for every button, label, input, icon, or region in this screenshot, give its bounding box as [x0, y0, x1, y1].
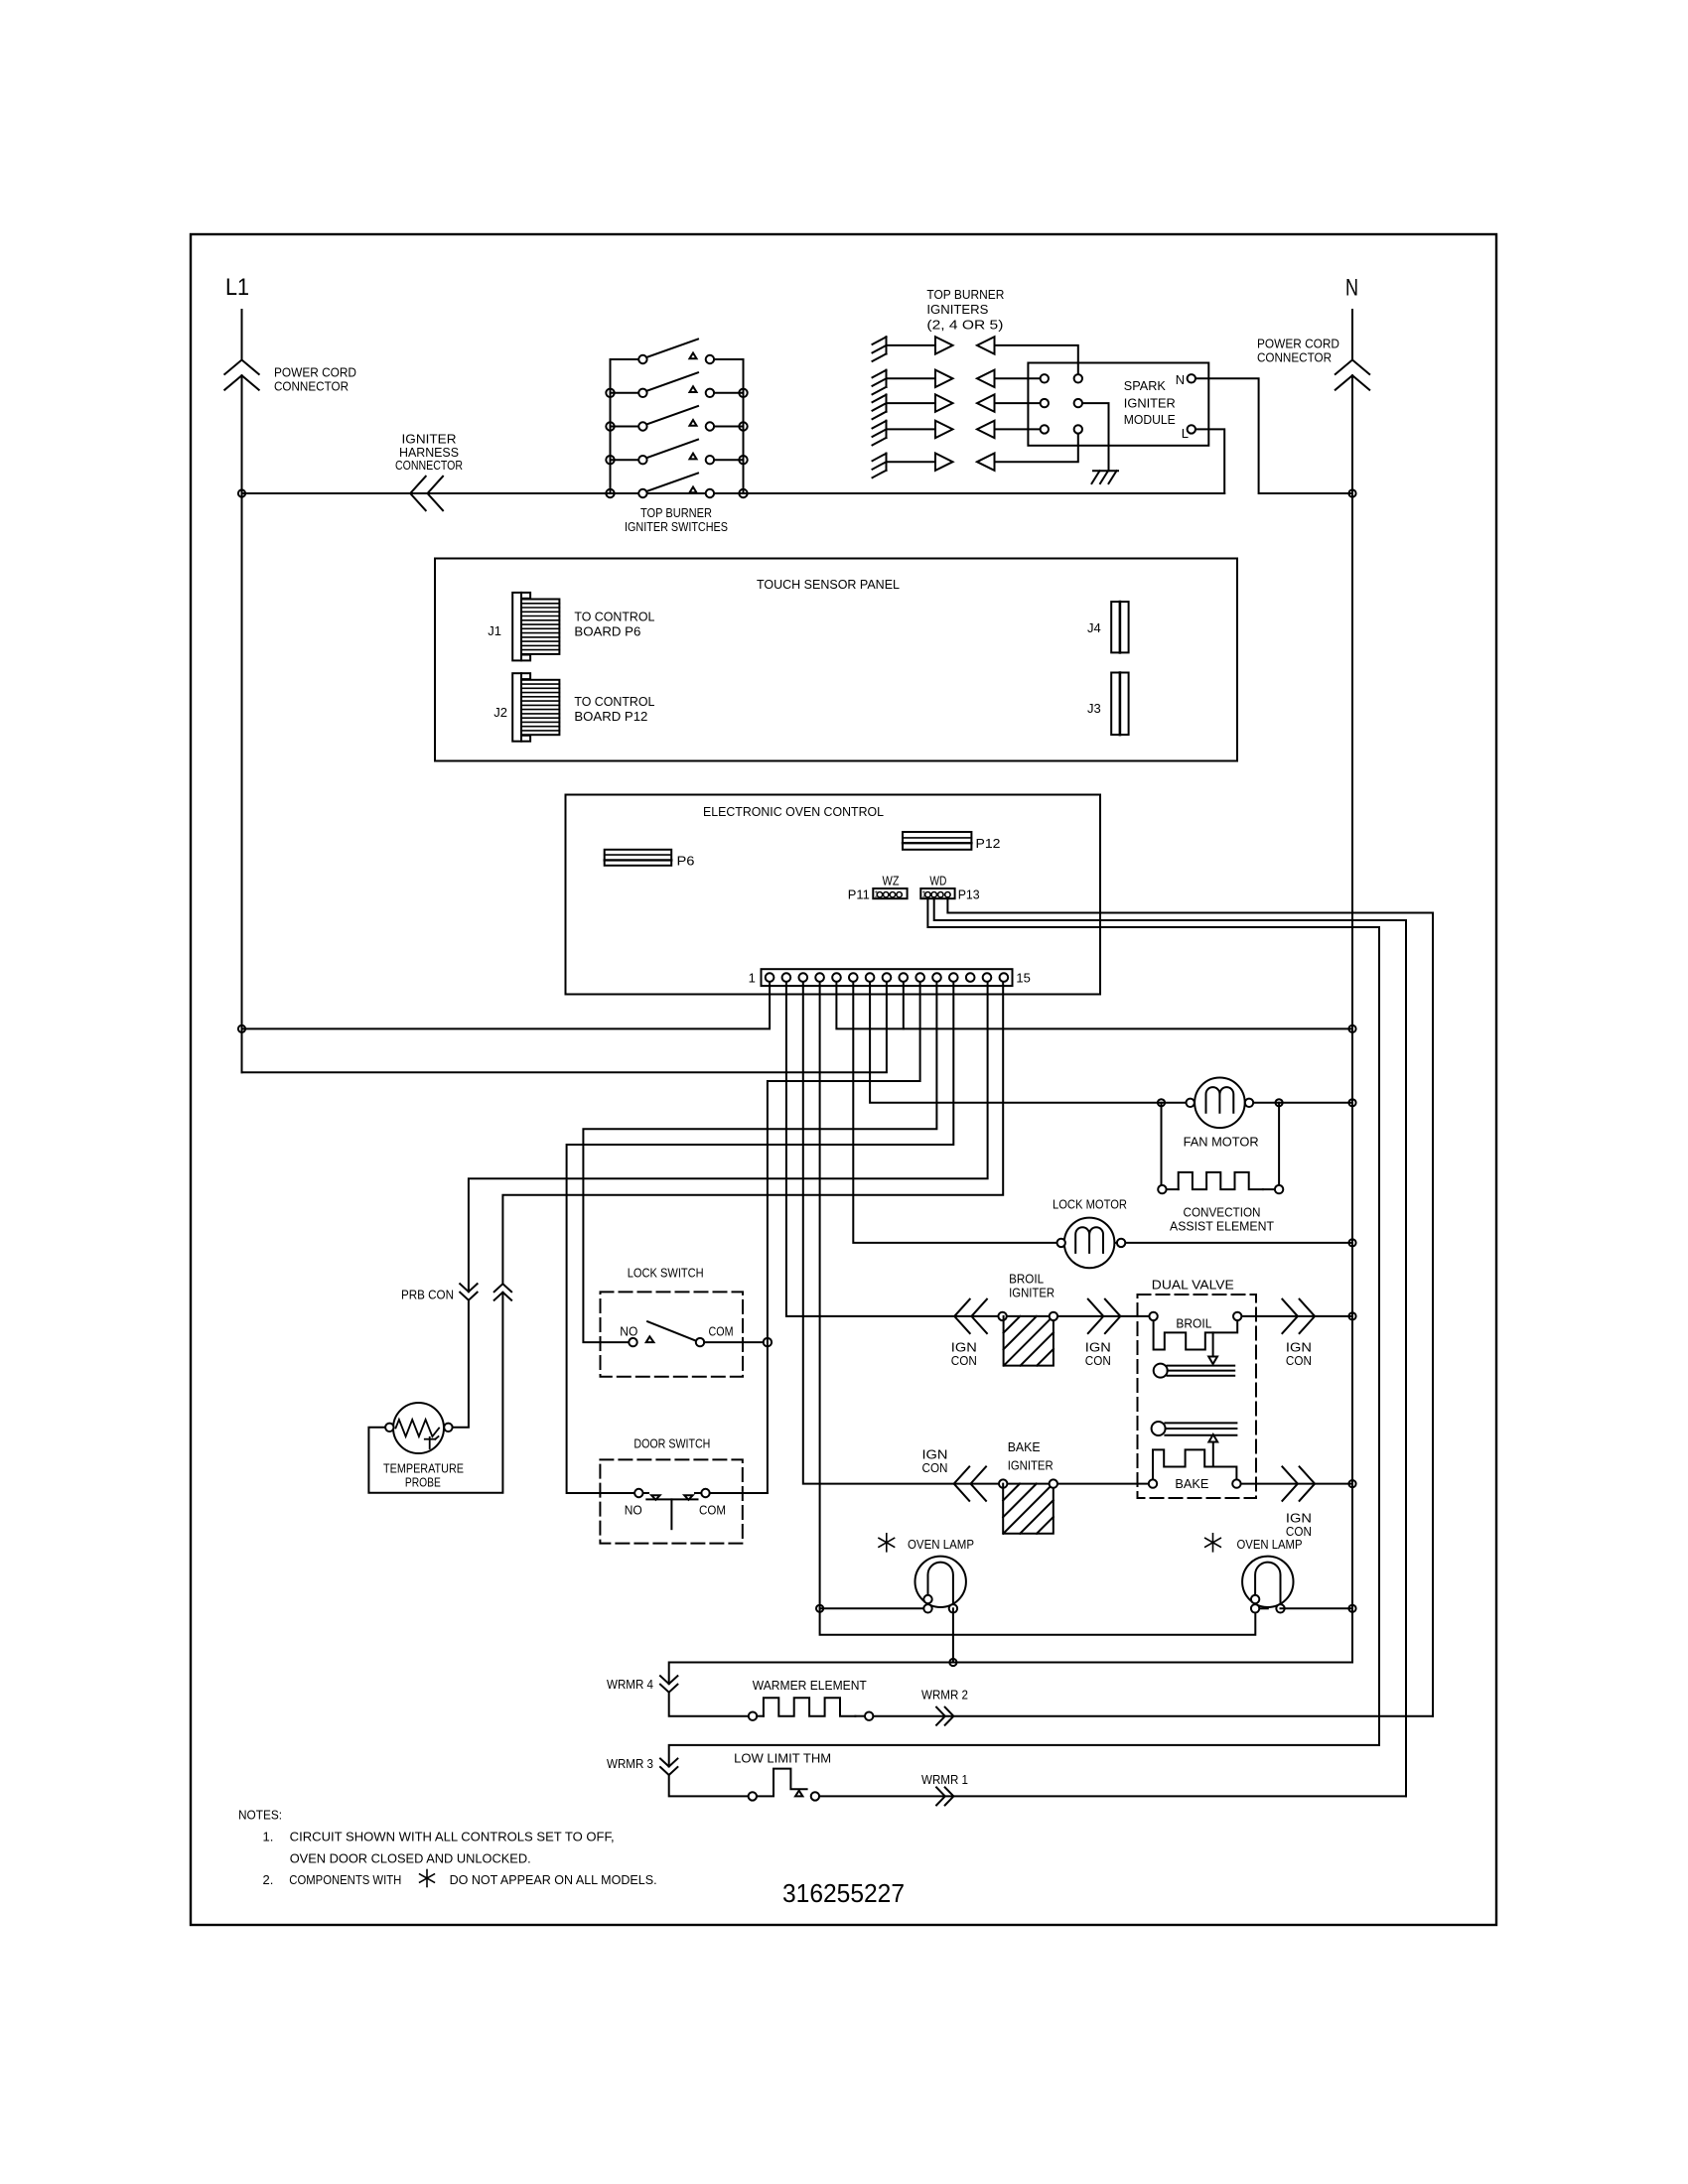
- svg-text:J1: J1: [488, 623, 501, 638]
- lock switch COM terminal: [696, 1338, 704, 1346]
- wire convection right drop: [1278, 1103, 1280, 1185]
- svg-text:CON: CON: [1286, 1353, 1312, 1368]
- broil valve terminal right: [1233, 1312, 1241, 1320]
- top burner igniter 5 electrode: [886, 454, 888, 471]
- node N fan row: [1348, 1099, 1355, 1106]
- wire pin14 to temperature probe (PRB CON): [469, 982, 988, 1292]
- svg-text:NOTES:: NOTES:: [238, 1808, 282, 1823]
- spark igniter module box: [1028, 363, 1208, 446]
- wire lamp2 left horizontal: [1255, 1607, 1268, 1609]
- module ground wire: [1082, 403, 1109, 471]
- svg-text:NO: NO: [620, 1323, 637, 1338]
- module terminal L: [1188, 425, 1196, 433]
- svg-text:SPARK: SPARK: [1124, 378, 1166, 393]
- wire pin3 to bake igniter row: [803, 982, 1149, 1484]
- pin 2: [782, 973, 791, 982]
- wire pin9 stub: [903, 982, 905, 1028]
- svg-text:PROBE: PROBE: [405, 1475, 441, 1490]
- wire WRMR4 to warmer element: [669, 1693, 749, 1716]
- svg-text:COM: COM: [709, 1323, 734, 1338]
- lock switch contact triangle: [646, 1336, 654, 1342]
- pin 11: [932, 973, 941, 982]
- svg-text:P6: P6: [677, 854, 695, 869]
- svg-text:TO CONTROL: TO CONTROL: [574, 610, 654, 624]
- svg-text:15: 15: [1016, 970, 1030, 985]
- top burner igniter 2 spark gap: [887, 377, 936, 379]
- igniter switch SW1: [611, 358, 639, 360]
- warmer element terminal left: [749, 1712, 757, 1720]
- pin 4: [815, 973, 824, 982]
- temperature probe terminal left: [385, 1424, 393, 1432]
- module terminal N: [1188, 374, 1196, 382]
- warmer connector WRMR4: [660, 1676, 677, 1684]
- igniter connector broil right: [1088, 1299, 1104, 1333]
- bake igniter terminal right: [1050, 1479, 1057, 1487]
- wire pin8 to L1 (W2): [242, 982, 887, 1072]
- wire PRB CON return to probe left terminal: [368, 1293, 502, 1493]
- svg-text:P11: P11: [848, 887, 870, 902]
- wire P13 pin1 to WRMR3 riser: [927, 897, 1379, 1745]
- pin 10: [915, 973, 924, 982]
- wire low limit to WRMR1: [819, 1795, 1406, 1797]
- wire door COM right: [710, 1492, 768, 1494]
- svg-text:CONNECTOR: CONNECTOR: [274, 379, 349, 394]
- svg-text:IGNITER SWITCHES: IGNITER SWITCHES: [625, 519, 728, 534]
- pin 7: [866, 973, 875, 982]
- top burner igniter 2 electrode: [886, 370, 888, 387]
- svg-text:FAN MOTOR: FAN MOTOR: [1184, 1134, 1259, 1149]
- door switch box: [600, 1459, 742, 1543]
- svg-text:IGNITER: IGNITER: [1008, 1458, 1054, 1473]
- lock motor terminal left: [1057, 1239, 1065, 1247]
- module pin left y406: [1041, 399, 1049, 407]
- svg-text:LOCK MOTOR: LOCK MOTOR: [1053, 1197, 1127, 1212]
- wire pin4 to oven lamps: [820, 982, 1256, 1635]
- igniter switch SW3: [611, 426, 639, 428]
- switch rail terminal left row4: [606, 456, 614, 464]
- pin 8: [883, 973, 892, 982]
- node fan row left: [1158, 1099, 1165, 1106]
- switch rail terminal right row4: [739, 456, 747, 464]
- node N fan-top junction: [1348, 1025, 1355, 1032]
- svg-text:BAKE: BAKE: [1175, 1476, 1208, 1491]
- temperature probe body: [393, 1403, 444, 1453]
- door switch COM terminal: [701, 1489, 709, 1497]
- module pin right y406: [1074, 399, 1082, 407]
- svg-text:OVEN DOOR CLOSED AND UNLOCKED.: OVEN DOOR CLOSED AND UNLOCKED.: [290, 1850, 531, 1865]
- power cord connector N: [1351, 310, 1353, 360]
- wire N to WRMR4 bus: [669, 1608, 1352, 1684]
- touch sensor panel box: [435, 559, 1237, 761]
- svg-text:LOW LIMIT THM: LOW LIMIT THM: [734, 1750, 831, 1765]
- oven lamp 2: [1242, 1557, 1293, 1607]
- pin 15: [1000, 973, 1009, 982]
- svg-text:P12: P12: [976, 836, 1001, 851]
- svg-text:CIRCUIT SHOWN WITH ALL CONTROL: CIRCUIT SHOWN WITH ALL CONTROLS SET TO O…: [290, 1830, 615, 1844]
- wire door switch NO stub: [643, 1492, 649, 1494]
- svg-text:POWER CORD: POWER CORD: [1257, 337, 1339, 351]
- wire lamp2 right to N: [1281, 1607, 1353, 1609]
- wire pin15 to probe return: [502, 982, 1003, 1284]
- temperature probe terminal right: [444, 1424, 452, 1432]
- connector P12: [903, 832, 971, 850]
- igniter switches right rail: [743, 359, 745, 493]
- module pin left y432: [1041, 425, 1049, 433]
- bake igniter (hot surface): [1003, 1484, 1054, 1534]
- svg-text:WRMR 2: WRMR 2: [921, 1688, 968, 1703]
- top burner igniter 3 spark gap: [887, 402, 936, 404]
- svg-text:CON: CON: [922, 1460, 948, 1475]
- svg-text:CONNECTOR: CONNECTOR: [395, 458, 463, 473]
- node L1 pin1 junction: [238, 1025, 245, 1032]
- svg-text:OVEN LAMP: OVEN LAMP: [1237, 1537, 1303, 1552]
- top burner igniter 1 electrode: [886, 337, 888, 353]
- wire pin12 to door switch NO: [567, 982, 954, 1493]
- wire lock switch COM to junction: [704, 1341, 764, 1343]
- switch rail terminal left row2: [606, 389, 614, 397]
- igniter switch SW2: [611, 392, 639, 394]
- switch rail terminal left row5: [606, 489, 614, 497]
- svg-text:(2, 4 OR 5): (2, 4 OR 5): [926, 318, 1003, 333]
- igniter connector bake far right: [1282, 1466, 1298, 1500]
- top burner igniter 1 spark gap: [887, 344, 936, 346]
- wire warmer element to WRMR2: [873, 1715, 1433, 1717]
- svg-text:WRMR 3: WRMR 3: [607, 1756, 653, 1771]
- bake valve coil: [1153, 1449, 1236, 1479]
- bake valve arrow: [1212, 1442, 1214, 1467]
- svg-text:CONNECTOR: CONNECTOR: [1257, 350, 1332, 365]
- connector J4: [1111, 602, 1128, 652]
- wire igniter row5 to module: [995, 434, 1078, 463]
- wire PRB CON to probe right terminal: [453, 1300, 469, 1428]
- border frame: [191, 234, 1496, 1925]
- power cord connector L1: [241, 310, 243, 360]
- wire pin7 to fan motor row: [870, 982, 1352, 1103]
- connector P11: [873, 888, 907, 898]
- svg-text:TEMPERATURE: TEMPERATURE: [383, 1460, 464, 1475]
- igniter switch SW4: [611, 459, 639, 461]
- pin 9: [900, 973, 909, 982]
- svg-text:TOP BURNER: TOP BURNER: [926, 287, 1004, 302]
- connector J1: [512, 593, 521, 661]
- node lamp feed: [816, 1605, 823, 1612]
- connector J3: [1111, 673, 1128, 736]
- svg-text:1: 1: [749, 970, 756, 985]
- svg-text:BOARD P6: BOARD P6: [574, 624, 640, 639]
- dual valve box: [1138, 1295, 1257, 1498]
- svg-text:DOOR SWITCH: DOOR SWITCH: [633, 1436, 710, 1451]
- lock switch COM junction terminal: [764, 1338, 772, 1346]
- wire convection left drop: [1161, 1103, 1163, 1185]
- convection terminal right: [1275, 1185, 1283, 1193]
- svg-text:IGNITERS: IGNITERS: [926, 302, 988, 317]
- svg-text:WRMR 1: WRMR 1: [921, 1772, 968, 1787]
- lock motor M2: [1064, 1218, 1115, 1269]
- wire igniter row3 to module: [995, 402, 1041, 404]
- svg-text:2.: 2.: [263, 1872, 274, 1887]
- note 2 asterisk: [426, 1870, 428, 1887]
- wire main L1 horizontal: [242, 492, 1225, 494]
- pin 14: [983, 973, 992, 982]
- svg-text:DUAL VALVE: DUAL VALVE: [1152, 1277, 1234, 1292]
- warmer connector WRMR2: [936, 1707, 945, 1725]
- wire door switch COM to junction: [695, 1492, 701, 1494]
- igniter switches left rail: [610, 359, 612, 493]
- broil igniter terminal left: [998, 1312, 1006, 1320]
- connector P13: [920, 888, 954, 898]
- probe connector PRB CON down pair: [460, 1284, 477, 1292]
- svg-text:CONVECTION: CONVECTION: [1184, 1205, 1261, 1220]
- svg-text:BOARD P12: BOARD P12: [574, 709, 647, 724]
- wire lamp1 right drop: [952, 1608, 954, 1662]
- module pin right y381: [1074, 374, 1082, 382]
- top burner igniter 3 electrode: [886, 394, 888, 411]
- node N lamp row: [1348, 1605, 1355, 1612]
- wire bake valve to N: [1241, 1483, 1352, 1485]
- igniter connector broil left: [954, 1299, 970, 1333]
- wire N vertical bus: [1351, 493, 1353, 1608]
- igniter switch SW5: [611, 492, 639, 494]
- switch rail terminal right row2: [739, 389, 747, 397]
- convection terminal left: [1158, 1185, 1166, 1193]
- svg-text:COMPONENTS WITH: COMPONENTS WITH: [289, 1872, 401, 1887]
- svg-text:WZ: WZ: [883, 874, 900, 888]
- switch rail terminal right row5: [739, 489, 747, 497]
- svg-text:DO NOT APPEAR ON ALL MODELS.: DO NOT APPEAR ON ALL MODELS.: [450, 1872, 657, 1887]
- svg-text:BAKE: BAKE: [1008, 1439, 1041, 1454]
- convection assist element: [1167, 1188, 1179, 1190]
- fan motor M1: [1195, 1078, 1245, 1129]
- svg-text:CON: CON: [1085, 1353, 1111, 1368]
- pin 6: [849, 973, 858, 982]
- bake gas outlet: [1152, 1422, 1166, 1435]
- bake igniter terminal left: [999, 1479, 1007, 1487]
- svg-text:ELECTRONIC OVEN CONTROL: ELECTRONIC OVEN CONTROL: [703, 804, 884, 819]
- warmer element terminal right: [865, 1712, 873, 1720]
- wire pin11 to lock switch NO: [583, 982, 936, 1342]
- svg-text:N: N: [1176, 372, 1185, 387]
- electronic oven control box: [566, 795, 1101, 995]
- lock switch blade: [647, 1321, 695, 1340]
- svg-text:NO: NO: [625, 1502, 642, 1517]
- svg-text:J2: J2: [493, 705, 507, 720]
- node N at main wire: [1348, 489, 1355, 496]
- broil gas outlet: [1154, 1364, 1168, 1378]
- low limit terminal right: [811, 1792, 819, 1800]
- ground: [1093, 470, 1118, 472]
- wire igniter row2 to module: [995, 377, 1041, 379]
- pin 1: [766, 973, 774, 982]
- igniter connector broil far right: [1282, 1299, 1298, 1333]
- svg-text:N: N: [1345, 275, 1358, 302]
- lock motor terminal right: [1117, 1239, 1125, 1247]
- broil valve coil: [1154, 1320, 1238, 1349]
- wire igniter row4 to module: [995, 428, 1041, 430]
- top burner igniter 4 electrode: [886, 421, 888, 438]
- bake valve terminal right: [1232, 1479, 1240, 1487]
- wire pin6 to lock motor row: [853, 982, 1352, 1243]
- low limit thermostat: [757, 1769, 807, 1797]
- fan motor terminal left: [1187, 1099, 1195, 1107]
- svg-text:MODULE: MODULE: [1124, 412, 1176, 427]
- svg-text:BROIL: BROIL: [1009, 1271, 1044, 1286]
- EOC pin strip: [762, 969, 1013, 986]
- node lamp1 return: [949, 1659, 956, 1666]
- pin 3: [799, 973, 808, 982]
- connector P6: [605, 850, 672, 866]
- svg-text:CON: CON: [951, 1353, 977, 1368]
- broil igniter terminal right: [1050, 1312, 1057, 1320]
- node N bake row: [1348, 1480, 1355, 1487]
- svg-text:POWER CORD: POWER CORD: [274, 365, 356, 380]
- wire pin2 to broil igniter row: [786, 982, 1150, 1316]
- switch rail terminal right row3: [739, 422, 747, 430]
- svg-text:PRB CON: PRB CON: [401, 1287, 454, 1301]
- node L1 at main wire: [238, 489, 245, 496]
- svg-text:ASSIST ELEMENT: ASSIST ELEMENT: [1170, 1218, 1274, 1233]
- pin 13: [966, 973, 975, 982]
- svg-text:WD: WD: [929, 874, 946, 888]
- svg-text:TOUCH SENSOR PANEL: TOUCH SENSOR PANEL: [757, 577, 900, 592]
- wire igniter row1 to module: [995, 345, 1078, 374]
- switch rail terminal left row3: [606, 422, 614, 430]
- svg-text:WARMER ELEMENT: WARMER ELEMENT: [753, 1678, 867, 1693]
- door switch NO terminal: [634, 1489, 642, 1497]
- svg-text:J4: J4: [1087, 620, 1101, 635]
- wire module N to N bus: [1196, 378, 1352, 493]
- wire pin1 to L1 node: [242, 982, 771, 1028]
- wire lamp feed horizontal: [820, 1607, 928, 1609]
- svg-text:COM: COM: [699, 1502, 726, 1517]
- low limit terminal left: [749, 1792, 757, 1800]
- wire pin10 to lock/door COM: [768, 982, 920, 1493]
- warmer connector WRMR3: [660, 1759, 677, 1767]
- probe connector PRB CON up pair: [494, 1284, 511, 1292]
- svg-text:1.: 1.: [263, 1830, 274, 1844]
- node N lock motor row: [1348, 1239, 1355, 1246]
- svg-text:WRMR 4: WRMR 4: [607, 1677, 653, 1692]
- wire P13 pin2 to WRMR1 riser: [934, 897, 1406, 1796]
- fan motor terminal right: [1245, 1099, 1253, 1107]
- wire P13 pin4 to WRMR2 riser: [947, 897, 1433, 1716]
- wire L1 vertical bus: [241, 493, 243, 1072]
- wire broil valve to N: [1241, 1315, 1352, 1317]
- warmer element: [757, 1715, 764, 1717]
- wire WRMR3 to low limit: [669, 1775, 749, 1796]
- broil valve arrow: [1212, 1332, 1214, 1356]
- top burner igniter 4 spark gap: [887, 428, 936, 430]
- broil igniter (hot surface): [1004, 1316, 1054, 1366]
- node fan row right: [1276, 1099, 1283, 1106]
- svg-text:TO CONTROL: TO CONTROL: [574, 694, 654, 709]
- svg-text:TOP BURNER: TOP BURNER: [640, 505, 712, 520]
- igniter harness connector: [410, 477, 426, 510]
- door switch bridge bar: [646, 1498, 697, 1500]
- top burner igniter 5 spark gap: [887, 461, 936, 463]
- svg-text:IGNITER: IGNITER: [1124, 395, 1176, 410]
- wire pin5 to N node: [836, 982, 1352, 1028]
- svg-text:IGNITER: IGNITER: [1009, 1286, 1055, 1300]
- bake valve terminal left: [1149, 1479, 1157, 1487]
- warmer connector WRMR1: [936, 1787, 945, 1805]
- svg-text:OVEN LAMP: OVEN LAMP: [908, 1537, 974, 1552]
- lock switch box: [601, 1292, 744, 1376]
- node N broil row: [1348, 1312, 1355, 1319]
- svg-text:L: L: [1182, 426, 1189, 441]
- svg-text:L1: L1: [225, 274, 249, 301]
- svg-text:P13: P13: [958, 887, 980, 902]
- connector J2: [512, 673, 521, 742]
- module pin left y381: [1041, 374, 1049, 382]
- svg-text:J3: J3: [1087, 701, 1101, 716]
- door switch contact triangles: [651, 1495, 660, 1500]
- igniter connector bake left: [954, 1466, 970, 1500]
- broil valve terminal left: [1149, 1312, 1157, 1320]
- svg-text:BROIL: BROIL: [1176, 1315, 1211, 1330]
- module pin right y432: [1074, 425, 1082, 433]
- pin 12: [949, 973, 958, 982]
- wire module L to L1 wire: [1196, 429, 1224, 493]
- pin 5: [832, 973, 841, 982]
- svg-text:316255227: 316255227: [782, 1878, 905, 1908]
- oven lamp 1: [915, 1557, 966, 1607]
- svg-text:LOCK SWITCH: LOCK SWITCH: [628, 1265, 704, 1280]
- wire WRMR3 riser link: [669, 1745, 1379, 1767]
- lock switch NO terminal: [629, 1338, 636, 1346]
